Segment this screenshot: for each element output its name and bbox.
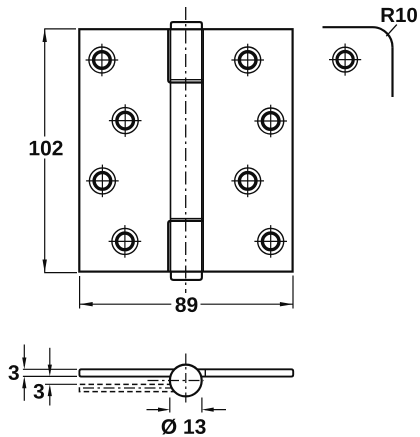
dimension 89: dimension line left part bbox=[80, 303, 172, 305]
dimension Ø13: left arrow line bbox=[147, 409, 167, 411]
corner detail: right edge bbox=[391, 47, 393, 97]
dimension 102: dimension line lower part bbox=[44, 159, 46, 273]
right leaf fold edge bbox=[202, 29, 204, 271]
dimension 3 (leaf thickness): extension line B bbox=[23, 375, 77, 377]
dimension text 3 (second) bbox=[34, 384, 44, 399]
knuckle top cap bbox=[171, 22, 202, 29]
left leaf fold edge (upper segment, curves into joint) bbox=[168, 29, 203, 82]
dimension 89: left extension line bbox=[79, 276, 81, 309]
dimension 89: arrowhead left bbox=[80, 302, 93, 306]
side view: horizontal centerline through barrel bbox=[148, 380, 204, 382]
corner detail: top edge bbox=[323, 26, 373, 28]
screw hole H6 (right leaf, row2) bbox=[254, 105, 287, 138]
knuckle joint upper gap line bbox=[171, 79, 204, 81]
dimension text 102 bbox=[30, 141, 63, 156]
corner detail: leader line to arc bbox=[386, 25, 397, 37]
knuckle right edge bbox=[201, 29, 203, 271]
side view: hidden leaf centerline (dash-dot) bbox=[83, 387, 176, 389]
dimension 3 (leaf thickness): extension line A bbox=[23, 368, 77, 370]
side view: barrel circle bbox=[170, 365, 202, 397]
dimension 102: bottom extension line bbox=[44, 272, 77, 274]
dimension 102: arrowhead up bbox=[43, 29, 47, 42]
dimension 89: dimension line right part bbox=[201, 303, 293, 305]
screw hole H2 (left leaf, row2) bbox=[109, 104, 142, 137]
screw hole H1 (left leaf, row1) bbox=[86, 44, 119, 77]
dimension 102: arrowhead down bbox=[43, 260, 47, 273]
screw hole H8 (right leaf, row4) bbox=[254, 225, 287, 258]
dimension 89: arrowhead right bbox=[280, 302, 293, 306]
knuckle bottom cap bbox=[171, 272, 202, 280]
side view: right leaf edge tick at barrel bbox=[204, 369, 206, 376]
dimension 3 pair1: up arrow bbox=[23, 380, 25, 401]
barrel centerline (dash-dot) bbox=[185, 7, 187, 293]
knuckle left edge bbox=[170, 29, 172, 271]
dimension 3 pair2: up arrow bbox=[49, 388, 51, 406]
dimension Ø13: left extension line bbox=[169, 398, 171, 413]
side view: vertical centerline through barrel bbox=[185, 354, 187, 405]
dimension text 89 bbox=[175, 297, 197, 312]
side view: left leaf (solid bar) bbox=[79, 369, 181, 376]
dimension Ø13: right extension line bbox=[201, 398, 203, 413]
dimension text 3 (first) bbox=[8, 365, 18, 380]
dimension 3 pair2: down arrow bbox=[49, 348, 51, 373]
dimension 89: right extension line bbox=[292, 276, 294, 309]
hinge plate outline (front view) bbox=[79, 29, 292, 271]
left leaf fold edge (lower segment, curves from joint) bbox=[168, 221, 203, 272]
dimension Ø13: right arrow line bbox=[205, 409, 226, 411]
dimension 102: dimension line upper part bbox=[44, 29, 46, 137]
dimension text Ø 13 bbox=[162, 419, 206, 435]
side view: hidden leaf (dashed bar) bbox=[79, 384, 181, 391]
corner detail screw hole bbox=[329, 44, 361, 76]
screw hole H3 (left leaf, row3) bbox=[86, 165, 119, 198]
knuckle joint lower gap line bbox=[171, 218, 204, 220]
dimension 3 (offset): extension line C bbox=[45, 383, 77, 385]
corner detail: R10 arc bbox=[373, 27, 393, 47]
screw hole H4 (left leaf, row4) bbox=[109, 225, 142, 258]
dimension 102: top extension line bbox=[44, 28, 76, 30]
side view: right leaf (solid bar) bbox=[191, 369, 293, 376]
dimension text R10 bbox=[382, 8, 417, 23]
dimension 3 pair1: down arrow bbox=[23, 345, 25, 367]
screw hole H5 (right leaf, row1) bbox=[231, 44, 264, 77]
screw hole H7 (right leaf, row3) bbox=[231, 165, 264, 198]
